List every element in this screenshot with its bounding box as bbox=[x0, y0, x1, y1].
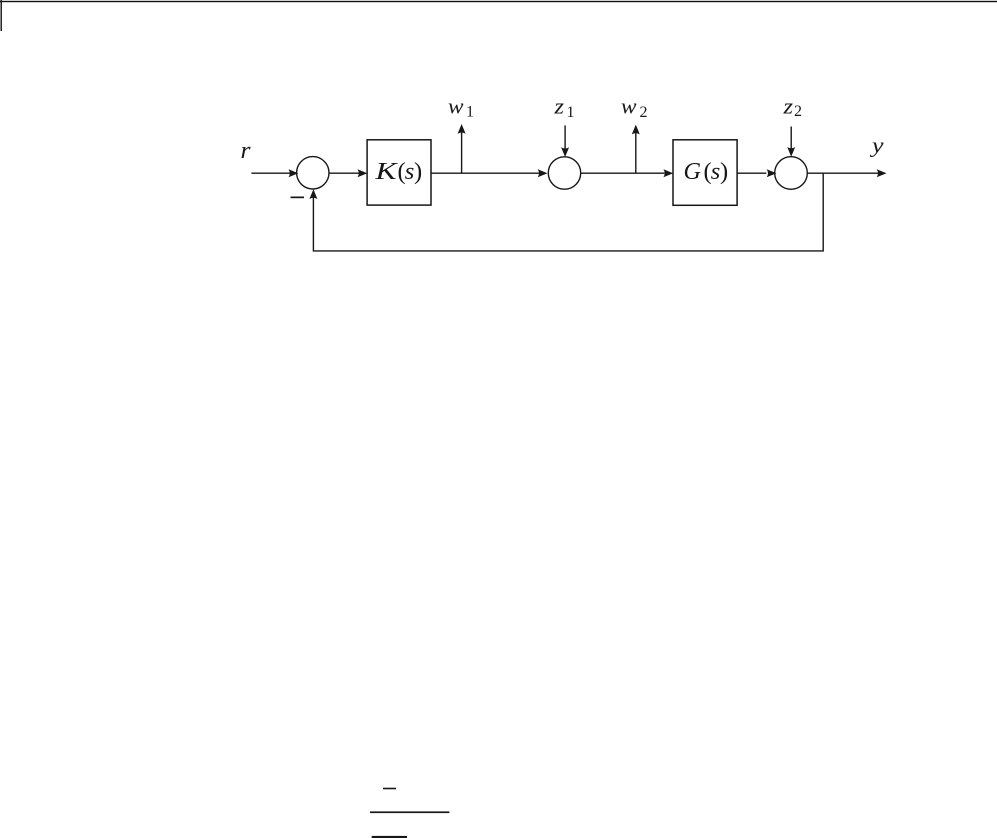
svg-text:w: w bbox=[621, 94, 637, 119]
svg-text:z: z bbox=[782, 94, 793, 119]
svg-text:2: 2 bbox=[640, 104, 648, 121]
svg-text:2: 2 bbox=[794, 103, 802, 120]
svg-text:): ) bbox=[720, 158, 728, 185]
svg-text:r: r bbox=[241, 138, 252, 164]
svg-text:z: z bbox=[553, 94, 564, 119]
svg-text:w: w bbox=[448, 94, 464, 119]
svg-text:G: G bbox=[684, 158, 702, 185]
svg-text:s: s bbox=[405, 158, 415, 185]
svg-text:1: 1 bbox=[567, 104, 575, 121]
svg-text:1: 1 bbox=[466, 104, 474, 121]
svg-text:): ) bbox=[414, 158, 422, 185]
svg-text:K: K bbox=[374, 158, 398, 185]
svg-text:s: s bbox=[711, 158, 721, 185]
svg-text:y: y bbox=[870, 133, 884, 158]
